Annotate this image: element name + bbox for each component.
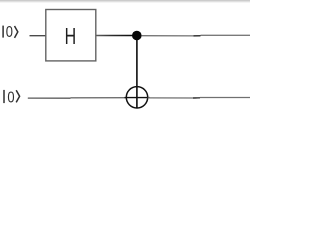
CNOT control dot	[132, 31, 142, 41]
gate H box U1	[46, 10, 96, 61]
wire: top dark tick	[194, 35, 201, 37]
wire: top-left stub	[30, 35, 46, 37]
wire: top right segment to edge	[201, 34, 251, 36]
wire: bottom middle segment	[71, 97, 127, 99]
qubit label |0> (top)	[3, 26, 18, 38]
wire: bottom-left stub	[28, 97, 71, 99]
svg-text:0: 0	[7, 89, 14, 106]
wire: H box to control dot	[0, 0, 1, 1]
CNOT target circle	[126, 87, 147, 108]
wire: top right of dot	[142, 35, 200, 37]
qubit label |0> (bottom)	[4, 90, 20, 103]
wire: bottom dark tick	[193, 97, 200, 99]
wire: bottom right of circle	[148, 97, 197, 99]
CNOT vertical link	[136, 36, 138, 109]
svg-text:0: 0	[6, 24, 13, 41]
wire: bottom right segment to edge	[200, 97, 250, 99]
svg-text:H: H	[65, 24, 77, 49]
top crop border	[0, 0, 250, 3]
CNOT target cross horizontal	[125, 97, 150, 99]
gate H label	[65, 24, 77, 49]
